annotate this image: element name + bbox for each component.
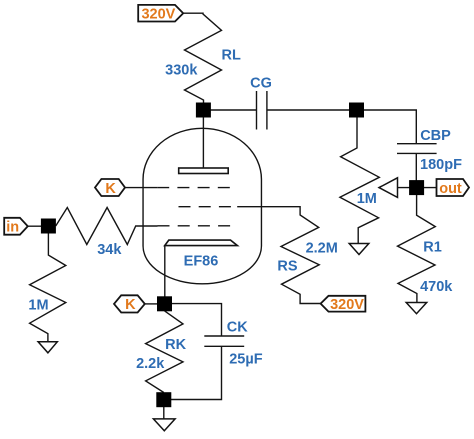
svg-text:K: K xyxy=(105,181,116,197)
svg-text:out: out xyxy=(439,181,462,197)
svg-text:330k: 330k xyxy=(165,63,198,79)
svg-text:R1: R1 xyxy=(423,240,442,256)
svg-text:25µF: 25µF xyxy=(229,352,262,368)
svg-text:320V: 320V xyxy=(141,7,175,23)
svg-text:in: in xyxy=(6,220,19,236)
svg-text:RS: RS xyxy=(277,259,297,275)
svg-text:1M: 1M xyxy=(28,297,48,313)
svg-text:RK: RK xyxy=(165,337,186,353)
svg-text:470k: 470k xyxy=(420,279,453,295)
svg-text:34k: 34k xyxy=(97,242,122,258)
svg-text:2.2k: 2.2k xyxy=(136,356,165,372)
svg-text:K: K xyxy=(125,297,136,313)
svg-text:1M: 1M xyxy=(357,191,377,207)
svg-text:CK: CK xyxy=(227,320,248,336)
svg-text:CBP: CBP xyxy=(420,128,451,144)
svg-text:EF86: EF86 xyxy=(184,253,219,269)
svg-text:RL: RL xyxy=(222,47,241,63)
svg-text:320V: 320V xyxy=(330,297,364,313)
svg-text:180pF: 180pF xyxy=(420,157,462,173)
svg-text:CG: CG xyxy=(250,75,272,91)
svg-text:2.2M: 2.2M xyxy=(306,241,338,257)
